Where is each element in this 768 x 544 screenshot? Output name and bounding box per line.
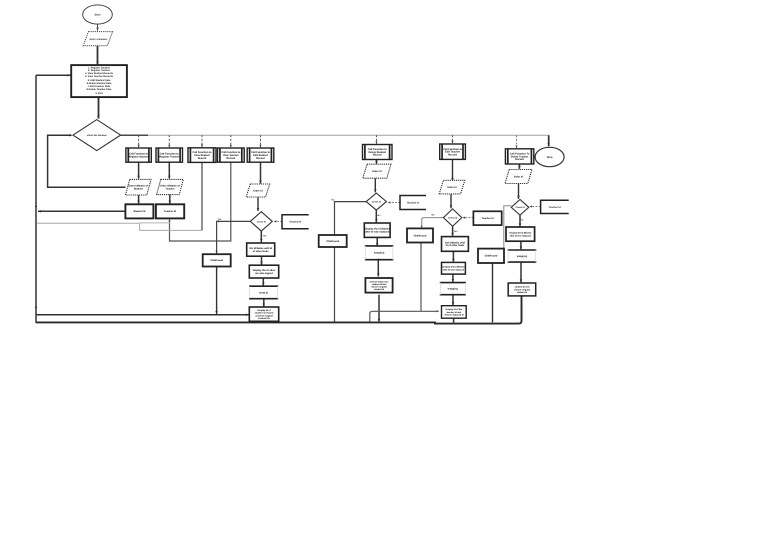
rect R2: Teacher Id [156, 204, 184, 218]
svg-text:temp(no): temp(no) [374, 252, 385, 255]
rect C6: ChkIFound [319, 235, 347, 247]
svg-text:Student Id: Student Id [407, 201, 419, 204]
rect T5: temp Id [249, 286, 278, 299]
svg-text:8.Delete Teacher Data: 8.Delete Teacher Data [87, 88, 112, 91]
rect M5 [249, 307, 278, 321]
decision D5: Check Id [250, 212, 272, 231]
svg-text:9. Exit: 9. Exit [95, 92, 102, 95]
rect C7: ChkIFound [407, 228, 433, 242]
decision D8: Check Id [511, 200, 529, 216]
process B4: View Teacher Record [218, 148, 245, 162]
svg-text:Record: Record [256, 157, 265, 160]
svg-text:Stop: Stop [547, 156, 553, 159]
svg-text:student Id: student Id [517, 291, 528, 294]
wire: spine drop x=138.6 [138, 135, 140, 147]
rect D5b display [249, 265, 278, 278]
svg-text:Register Teacher: Register Teacher [159, 155, 179, 158]
rect Disp6 [364, 223, 390, 237]
wire: P6 to D6 [374, 177, 376, 192]
svg-text:Display the Id (Name): Display the Id (Name) [509, 232, 531, 235]
svg-text:Student: Student [134, 187, 143, 190]
wire: T6 to M6 [377, 259, 379, 277]
svg-text:teacher Id and: teacher Id and [447, 311, 462, 314]
parallelogram P1 [126, 179, 152, 195]
decision D7: Check Id [443, 209, 461, 226]
wire: D7 no branch [422, 218, 444, 228]
svg-text:Yes: Yes [454, 230, 459, 233]
svg-text:Display the Id (Name): Display the Id (Name) [443, 266, 465, 269]
wire: D7 to G7 [452, 226, 454, 236]
wire: B6 to P6 [376, 160, 378, 164]
svg-text:Display Id of: Display Id of [257, 309, 270, 312]
svg-text:Teacher Id: Teacher Id [482, 217, 495, 220]
svg-text:ChkIFound: ChkIFound [210, 259, 223, 262]
wire: bus2 [36, 296, 522, 323]
rect M8 [508, 283, 536, 296]
decision: check the Number [73, 120, 121, 151]
open rect O5: Student Id [282, 215, 309, 229]
svg-text:remove replaced Id: remove replaced Id [444, 313, 464, 316]
svg-text:temp(no): temp(no) [448, 288, 459, 291]
rect T8: temp(no) [508, 250, 537, 262]
wire: top spine gray part [148, 134, 549, 136]
wire: M6 to bus2 [378, 295, 380, 322]
svg-text:Register Student: Register Student [129, 155, 149, 158]
svg-text:Record: Record [227, 157, 236, 160]
wire: M7 to bus2 [453, 318, 455, 322]
rect C1: ChkIFound [203, 254, 231, 266]
wire: top spine dark part [121, 134, 148, 136]
svg-text:temp(no): temp(no) [517, 255, 528, 258]
svg-text:Enter Id: Enter Id [447, 186, 457, 189]
rect R1: Student Id [125, 204, 153, 218]
wire: G5 to D5b [261, 256, 263, 265]
wire: C8 to bus2 [492, 263, 494, 322]
wire: D8 to Disp8 [519, 215, 521, 226]
svg-text:remove original: remove original [514, 288, 530, 291]
svg-text:Check Id: Check Id [515, 206, 525, 209]
svg-text:No: No [218, 218, 222, 221]
parallelogram P8: Enter Id [505, 170, 532, 184]
svg-text:Check Id: Check Id [257, 220, 267, 223]
svg-text:Display Id of the: Display Id of the [446, 308, 463, 311]
wire: spine drop x=376.5 [376, 135, 378, 144]
parallelogram P7: Enter Id [439, 180, 465, 194]
svg-text:Record: Record [515, 158, 524, 161]
svg-text:4. View Teacher Records: 4. View Teacher Records [85, 75, 114, 78]
wire: Disp7 to T7 [452, 274, 454, 282]
rect G5 [247, 243, 275, 256]
rect M7 [442, 306, 467, 319]
svg-text:temp Id: temp Id [259, 291, 268, 294]
svg-text:Enter Id: Enter Id [253, 189, 263, 192]
wire: B3 gray loop to left feedback [37, 223, 202, 230]
svg-text:Record: Record [198, 157, 207, 160]
wire: bus1 [36, 314, 249, 316]
process B7: Edit Teacher Record [440, 144, 466, 159]
svg-text:student IDs: student IDs [258, 317, 271, 320]
svg-text:are also signed: are also signed [255, 272, 273, 275]
svg-text:Record: Record [448, 153, 457, 156]
rect T7: temp(no) [440, 283, 466, 295]
rect G7 [442, 237, 469, 252]
wire: B8 to P8 [518, 164, 520, 169]
wire: input to menu [97, 46, 99, 65]
process B1: Register Student [126, 148, 151, 162]
svg-text:remove temp Id as: remove temp Id as [370, 280, 390, 283]
wire: P1 to R1 [138, 195, 140, 204]
decision D6: Check Id [366, 193, 386, 210]
wire: loop B4 to R2 [170, 162, 231, 241]
rect C8: ChkIFound [478, 249, 504, 263]
svg-text:of other Node: of other Node [253, 250, 269, 253]
svg-text:ChkIFound: ChkIFound [485, 255, 498, 258]
wire: D6 to Disp6 [375, 210, 377, 222]
parallelogram P6: Enter Id [363, 164, 391, 178]
svg-text:No: No [431, 214, 435, 217]
wire: Disp6 to T6 [376, 237, 378, 246]
wire: T8 to M8 [520, 262, 522, 282]
svg-text:Check Id: Check Id [448, 217, 458, 220]
rect Disp7 [442, 262, 466, 274]
wire: menu to decision [98, 97, 100, 119]
rect Teacher Id (col7) [473, 211, 501, 225]
wire: feedback into menu [36, 74, 71, 76]
wire: C1 to bus1 [216, 267, 218, 315]
wire: P2 to R2 [169, 195, 171, 204]
wire: D8 no branch [504, 206, 511, 248]
parallelogram P2 [157, 179, 184, 194]
wire: T5 to M5 [263, 299, 265, 307]
wire: left feedback vertical [35, 75, 37, 323]
process B2: Register Teacher [156, 148, 183, 162]
svg-text:Yes: Yes [263, 235, 268, 238]
svg-text:Id of other Node: Id of other Node [446, 244, 465, 247]
process B5: Edit Student Record [247, 148, 274, 162]
start ellipse [83, 5, 113, 24]
svg-text:after Id was replaced: after Id was replaced [365, 230, 390, 233]
svg-text:Enter a Number: Enter a Number [90, 38, 108, 41]
wire: D6 no branch through C6 to bus2 [335, 202, 367, 323]
svg-text:Record: Record [373, 154, 382, 157]
wire: drop to Stop ellipse [548, 135, 550, 146]
rect T6: temp(no) [365, 246, 394, 260]
open rect O6: Student Id [400, 196, 426, 210]
svg-text:after Id was replaced: after Id was replaced [510, 234, 532, 237]
wire: P7 to D7 [450, 194, 452, 208]
process B3: View Student Record [188, 148, 216, 163]
svg-text:Student Id: Student Id [133, 210, 145, 213]
wire: spine drop col8 [516, 135, 518, 148]
parallelogram P5: Enter Id [246, 184, 270, 197]
process B6: Delete Student Record [363, 145, 393, 160]
stop ellipse [535, 147, 564, 166]
svg-text:check the Number: check the Number [87, 134, 107, 137]
svg-text:student Id and: student Id and [515, 286, 530, 289]
wire: B1 to P1 [138, 162, 140, 179]
wire: gray stub to R2 loop [140, 222, 171, 224]
wire: O6 to D6 [389, 202, 400, 204]
svg-text:Teacher Id: Teacher Id [164, 210, 177, 213]
wire: T7 to M7 [452, 295, 454, 305]
svg-text:ChkIFound: ChkIFound [414, 234, 427, 237]
wire: start to input [97, 24, 99, 30]
wire: spine drop x=260.5 [260, 135, 262, 147]
wire: TeacherId7 to D7 [463, 217, 473, 219]
svg-text:Student Id: Student Id [289, 221, 301, 224]
wire: R1 to left feedback [38, 210, 125, 212]
wire: B5 to P5 [260, 162, 262, 183]
wire: G7 to Disp7 [452, 251, 454, 261]
open rect O8: Teacher Id [541, 200, 569, 213]
svg-text:student Id and: student Id and [372, 283, 387, 286]
process B8: Delete Teacher Record [505, 149, 533, 164]
wire: Disp8 to T8 [520, 241, 522, 249]
wire: O8 to D8 [530, 206, 540, 208]
svg-text:Teacher Id: Teacher Id [549, 206, 562, 209]
wire: spine drop x=230.8 [230, 135, 232, 147]
svg-text:Yes: Yes [520, 218, 525, 221]
svg-text:Enter Id: Enter Id [372, 170, 382, 173]
wire: loop from parallelogram P1 back to decision [48, 135, 126, 187]
wire: D5b to T5 [262, 278, 264, 286]
wire: P8 to D8 [518, 184, 520, 199]
wire: B3 down [201, 162, 203, 230]
wire: spine drop x=169.3 [168, 135, 170, 147]
svg-text:remove original: remove original [371, 285, 387, 288]
rect M6 [365, 278, 392, 293]
svg-text:student Id: student Id [374, 288, 385, 291]
wire: spine drop x=452.5 [452, 135, 454, 143]
svg-text:Start: Start [95, 13, 101, 16]
svg-text:Teacher: Teacher [165, 187, 174, 190]
svg-text:continue original: continue original [255, 314, 273, 317]
menu rectangle [71, 65, 127, 97]
wire: D5 to G5 [260, 231, 262, 242]
svg-text:after Id was replaced: after Id was replaced [443, 269, 465, 272]
wire: B7 to P7 [452, 159, 454, 181]
wire: P5 to D5 [257, 197, 259, 211]
svg-text:Yes: Yes [377, 214, 382, 217]
rect Disp8 [506, 227, 535, 241]
wire: C7 to bus2 loop [370, 243, 439, 323]
wire: spine drop x=202 [201, 135, 203, 147]
wire: B2 to P2 [168, 162, 170, 179]
wire: D5 no branch [217, 221, 251, 253]
svg-text:Check Id: Check Id [372, 201, 382, 204]
svg-text:ChkIFound: ChkIFound [326, 240, 339, 243]
wire: O5 to D5 [275, 220, 283, 222]
svg-text:student not found: student not found [255, 312, 274, 315]
svg-text:Enter Id: Enter Id [514, 175, 524, 178]
input parallelogram: Enter a Number [83, 32, 112, 46]
